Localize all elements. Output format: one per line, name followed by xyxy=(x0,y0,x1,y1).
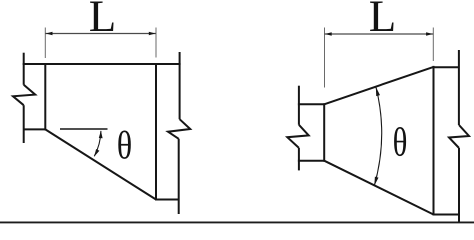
break symbol on left beam (left figure) xyxy=(13,85,35,105)
left beam line upper part (right figure) xyxy=(298,86,300,125)
right column line lower part (left figure) xyxy=(178,139,180,214)
right column line upper part (left figure) xyxy=(179,52,181,119)
wire: bottom flange stub right (right figure) xyxy=(434,214,459,216)
wire: plate right vertical edge (left figure) xyxy=(155,63,157,201)
wire: top flange stub right (right figure) xyxy=(434,66,459,68)
label L (right figure) xyxy=(370,2,393,32)
left beam line lower part (right figure) xyxy=(298,148,300,171)
wire: lower flange stub left (left figure) xyxy=(24,128,46,130)
dimension arrowhead left (left figure) xyxy=(46,32,53,36)
dimension line L (right figure) xyxy=(325,33,434,35)
wire: plate left vertical edge (left figure) xyxy=(44,63,46,130)
dimension arrowhead left (right figure) xyxy=(325,32,332,36)
angle reference horizontal line (left figure) xyxy=(60,128,108,130)
break symbol on right column (left figure) xyxy=(168,119,190,139)
label theta (right figure) xyxy=(394,127,406,156)
angle arc with arrows (right figure) xyxy=(374,87,381,186)
wire: sloped bottom edge of plate (right figure) xyxy=(324,161,433,215)
right column line lower part (right figure) xyxy=(458,148,460,223)
extension line left of dimension L (right figure) xyxy=(324,28,326,88)
wire: plate left vertical edge (right figure) xyxy=(323,103,325,161)
dimension arrowhead right (right figure) xyxy=(426,32,433,36)
label theta (left figure) xyxy=(118,131,131,159)
break symbol on left beam (right figure) xyxy=(287,125,308,148)
right column line upper part (right figure) xyxy=(458,50,460,125)
left beam line lower part (left figure) xyxy=(23,105,25,143)
wire: top edge of haunch plate (left figure) xyxy=(23,63,181,65)
left beam line (left figure) xyxy=(23,53,25,85)
extension line left of dimension L (left figure) xyxy=(44,28,46,59)
dimension line L (left figure) xyxy=(45,33,156,35)
wire: bottom flange stub left (right figure) xyxy=(298,160,324,162)
wire: sloped bottom edge of plate (left figure) xyxy=(45,129,156,199)
extension line right of dimension L (left figure) xyxy=(155,28,157,58)
wire: top flange stub left (right figure) xyxy=(298,103,324,105)
angle arc with arrows (left figure) xyxy=(94,131,102,157)
break symbol on right column (right figure) xyxy=(449,125,469,148)
wire: bottom flange stub right (left figure) xyxy=(156,199,179,201)
bottom border line of panel xyxy=(0,221,474,223)
label L (left figure) xyxy=(90,2,113,32)
dimension arrowhead right (left figure) xyxy=(149,32,156,36)
extension line right of dimension L (right figure) xyxy=(432,28,434,62)
wire: sloped top edge of plate (right figure) xyxy=(324,67,433,104)
wire: plate right vertical edge (right figure) xyxy=(433,66,435,216)
